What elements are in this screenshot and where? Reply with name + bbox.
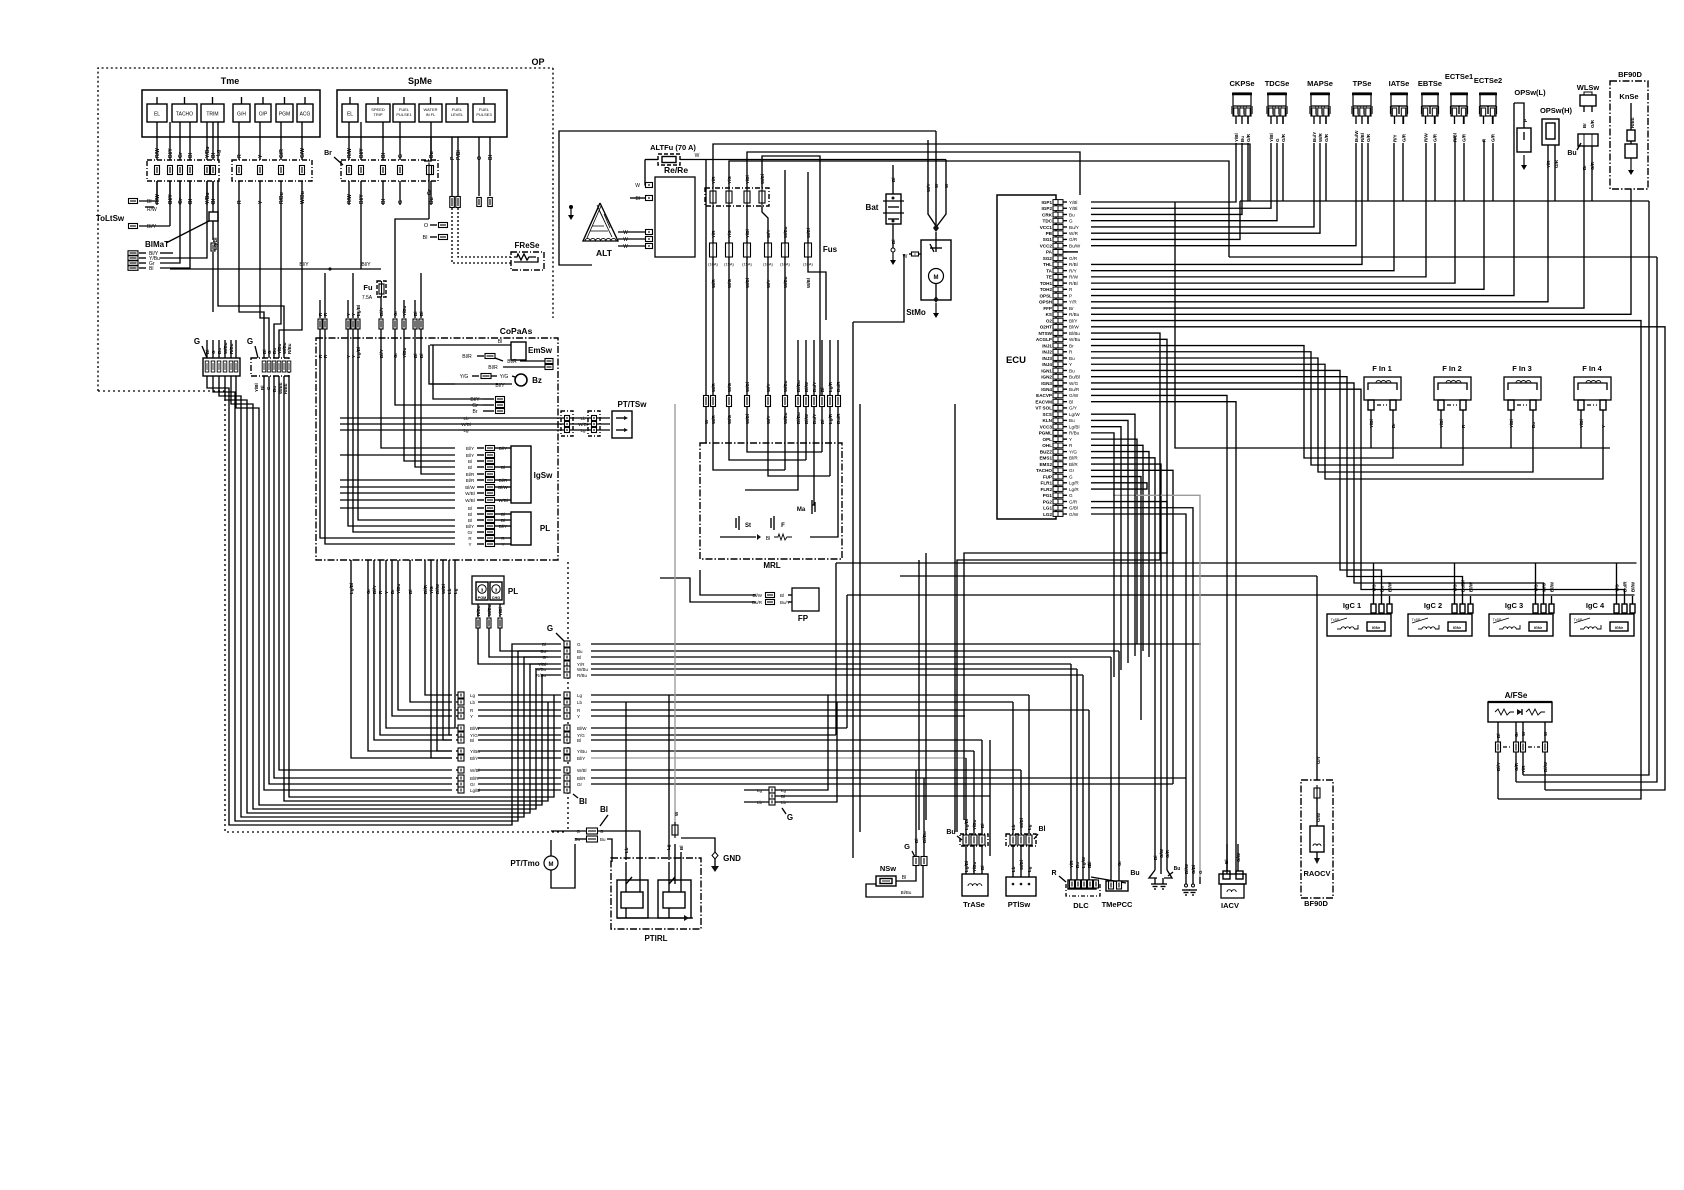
rail branch drops to PTlRL bbox=[626, 695, 669, 860]
svg-text:Bl: Bl bbox=[470, 738, 474, 743]
svg-text:Bl: Bl bbox=[468, 512, 472, 517]
svg-text:W: W bbox=[623, 230, 628, 236]
svg-text:R/W: R/W bbox=[347, 194, 353, 204]
svg-text:IgC 1: IgC 1 bbox=[1343, 601, 1361, 610]
wire W with inline fuse to PTlRL bbox=[666, 404, 684, 850]
svg-text:F In 4: F In 4 bbox=[1582, 364, 1602, 373]
svg-text:Bl/Y: Bl/Y bbox=[168, 148, 174, 158]
svg-text:G/W: G/W bbox=[1069, 393, 1079, 398]
svg-text:Bl: Bl bbox=[579, 797, 587, 806]
harness joint connectors (left column) and links bbox=[456, 692, 587, 793]
svg-text:IGN4: IGN4 bbox=[1041, 387, 1052, 392]
injector signal wires to ECU INJ pins bbox=[1091, 346, 1603, 479]
svg-text:INJ3: INJ3 bbox=[1042, 356, 1052, 361]
svg-text:G/R: G/R bbox=[1433, 133, 1438, 142]
Tme indicator O/P bbox=[255, 97, 271, 122]
ground connector G (left) bbox=[194, 337, 240, 376]
svg-text:R/Bl: R/Bl bbox=[1069, 262, 1078, 267]
svg-text:R/Bu: R/Bu bbox=[476, 605, 481, 616]
svg-text:DLC: DLC bbox=[1073, 901, 1089, 910]
svg-text:Lg/Bl: Lg/Bl bbox=[1069, 424, 1079, 429]
Tme indicator PGM bbox=[276, 97, 293, 122]
svg-text:Lg: Lg bbox=[463, 428, 469, 433]
svg-text:F In 2: F In 2 bbox=[1442, 364, 1462, 373]
svg-text:ALTFu (70 A): ALTFu (70 A) bbox=[650, 143, 696, 152]
svg-text:Bl: Bl bbox=[780, 593, 784, 598]
svg-text:PGML: PGML bbox=[1039, 431, 1052, 436]
wires Gr Bl Y/Bu to left edge connectors bbox=[160, 181, 207, 268]
svg-text:Bu: Bu bbox=[946, 829, 955, 836]
svg-text:W/R: W/R bbox=[1318, 133, 1323, 142]
svg-text:G: G bbox=[398, 200, 404, 204]
svg-text:Bl/W: Bl/W bbox=[577, 726, 587, 731]
svg-text:Bl/W: Bl/W bbox=[1184, 863, 1189, 874]
idle air control valve IACV bbox=[1219, 844, 1246, 910]
alternator ALT bbox=[583, 203, 618, 258]
svg-text:PL: PL bbox=[508, 587, 518, 596]
svg-text:OPL: OPL bbox=[1043, 437, 1053, 442]
G connector pins bbox=[205, 361, 291, 372]
svg-text:IgC 3: IgC 3 bbox=[1505, 601, 1523, 610]
fuel pump FP bbox=[660, 570, 819, 623]
ground wires PG LG bbox=[1091, 502, 1193, 877]
svg-text:W: W bbox=[635, 183, 640, 189]
tilt switch connector ToLtSw bbox=[96, 199, 170, 231]
svg-text:CRK: CRK bbox=[1042, 212, 1053, 217]
svg-text:Fus: Fus bbox=[823, 245, 838, 254]
ignition coil IgC 4 bbox=[1570, 581, 1636, 636]
svg-text:NTSW: NTSW bbox=[1038, 331, 1052, 336]
Re/Re pins W Bl and ALT links bbox=[592, 183, 653, 266]
svg-text:IGNr: IGNr bbox=[1453, 626, 1462, 630]
svg-text:G: G bbox=[904, 842, 910, 851]
connector pair Bl (G Bu) bbox=[551, 805, 640, 862]
harness wires into CoPaAs (vertical bundle with inline connectors) bbox=[318, 273, 424, 358]
svg-text:G/W: G/W bbox=[1159, 848, 1164, 858]
svg-text:Bl: Bl bbox=[211, 198, 217, 204]
pilot lamps PL (PGM CHG) bbox=[472, 576, 518, 604]
svg-text:G: G bbox=[1069, 219, 1073, 224]
ignition coil IgC 3 bbox=[1489, 581, 1555, 636]
engine ground points 2 bbox=[1182, 863, 1203, 895]
Tme indicator G/H bbox=[233, 97, 250, 122]
svg-text:TRIP: TRIP bbox=[373, 112, 382, 117]
svg-text:R/W: R/W bbox=[1069, 275, 1079, 280]
svg-text:EL: EL bbox=[154, 112, 160, 118]
svg-text:IGNr: IGNr bbox=[1615, 626, 1624, 630]
fuel injector F In 4 bbox=[1574, 364, 1611, 431]
wires SCS KLN VCC3 PGML down bbox=[1091, 414, 1135, 700]
svg-text:IGN2: IGN2 bbox=[1041, 375, 1052, 380]
PL lamp wires join harness rows bbox=[478, 628, 548, 664]
svg-text:Bl/R: Bl/R bbox=[1069, 462, 1078, 467]
buzzer Bz bbox=[455, 374, 542, 390]
svg-text:R/Bu: R/Bu bbox=[279, 192, 285, 204]
power tilt switch PTlSw bbox=[1006, 695, 1046, 909]
svg-text:Bl/Y: Bl/Y bbox=[1069, 318, 1077, 323]
svg-text:G: G bbox=[1275, 138, 1280, 142]
svg-text:Bu: Bu bbox=[1130, 870, 1139, 877]
svg-text:Y/G: Y/G bbox=[1069, 449, 1077, 454]
G connector wire labels bbox=[205, 342, 292, 394]
rectifier/regulator Re/Re bbox=[655, 165, 695, 257]
svg-text:Bl: Bl bbox=[1087, 862, 1092, 867]
svg-text:EMS2: EMS2 bbox=[1039, 462, 1052, 467]
svg-text:LG1: LG1 bbox=[1043, 506, 1052, 511]
svg-text:Lg/R: Lg/R bbox=[1069, 487, 1079, 492]
control panel assembly CoPaAs (dash-dot boundary) bbox=[316, 326, 558, 560]
svg-text:ALT: ALT bbox=[596, 248, 613, 258]
neutral switch NSw bbox=[866, 864, 923, 897]
svg-text:W/R: W/R bbox=[711, 383, 716, 392]
svg-text:W/Bu: W/Bu bbox=[300, 191, 306, 204]
svg-text:IgSw: IgSw bbox=[534, 471, 553, 480]
svg-text:Bl: Bl bbox=[413, 312, 418, 317]
svg-text:PGM: PGM bbox=[279, 112, 290, 118]
svg-text:O/P: O/P bbox=[259, 112, 268, 118]
svg-text:KnSe: KnSe bbox=[1619, 92, 1638, 101]
svg-text:W/Bu: W/Bu bbox=[487, 604, 492, 616]
CoPaAs bottom exit harness bundle bbox=[349, 560, 458, 758]
svg-text:W/Bl: W/Bl bbox=[498, 498, 508, 503]
svg-text:TACHO: TACHO bbox=[176, 112, 193, 118]
svg-text:Gr: Gr bbox=[178, 152, 184, 158]
connector stub Bl bbox=[423, 235, 448, 242]
main fuse strip (4 fuses dash-dot) bbox=[705, 188, 769, 206]
svg-text:Br: Br bbox=[1069, 343, 1074, 348]
svg-text:PULSE3: PULSE3 bbox=[476, 112, 492, 117]
left edge connectors Bl/Y Y/Bu Gr Bl bbox=[128, 251, 160, 272]
svg-text:Bu: Bu bbox=[429, 151, 435, 158]
svg-text:IACV: IACV bbox=[1221, 901, 1239, 910]
svg-text:TE: TE bbox=[1046, 275, 1052, 280]
main relay connector row Bl group bbox=[796, 340, 842, 443]
svg-text:OPSw(H): OPSw(H) bbox=[1540, 106, 1573, 115]
svg-text:Bl: Bl bbox=[188, 198, 194, 204]
fuel reserve sensor FReSe bbox=[511, 241, 544, 270]
OP harness boundary (dashed) bbox=[98, 57, 568, 832]
svg-text:IGP1: IGP1 bbox=[1042, 200, 1053, 205]
svg-text:Bl: Bl bbox=[501, 512, 505, 517]
tilt meter PCC connector TMePCC bbox=[1087, 651, 1140, 909]
svg-text:R: R bbox=[1051, 870, 1056, 877]
wires fuse strip to top rails bbox=[713, 144, 1250, 395]
svg-text:Br: Br bbox=[473, 409, 478, 415]
svg-text:Br: Br bbox=[324, 150, 332, 157]
svg-text:R/Bu: R/Bu bbox=[287, 343, 292, 354]
svg-text:Bl/Y: Bl/Y bbox=[577, 756, 585, 761]
ground GND bbox=[681, 838, 741, 872]
svg-text:SCS: SCS bbox=[1043, 412, 1052, 417]
svg-text:OPSL: OPSL bbox=[1039, 293, 1052, 298]
svg-text:R/W: R/W bbox=[1424, 133, 1429, 143]
svg-text:G/Bl: G/Bl bbox=[1069, 506, 1078, 511]
SpMe connector strip (dash-dot) bbox=[341, 160, 438, 181]
wires EACV to IACV bbox=[1091, 395, 1236, 874]
air/fuel ratio sensor A/FSe bbox=[1488, 691, 1552, 799]
svg-text:G/R: G/R bbox=[1281, 133, 1286, 142]
svg-text:Lg/R: Lg/R bbox=[1069, 481, 1079, 486]
svg-text:TOH2: TOH2 bbox=[1040, 287, 1053, 292]
svg-text:G/R: G/R bbox=[1462, 133, 1467, 142]
svg-text:INJ2: INJ2 bbox=[1042, 350, 1052, 355]
svg-text:O2: O2 bbox=[1046, 318, 1053, 323]
svg-text:VCC2: VCC2 bbox=[1040, 243, 1053, 248]
svg-text:G/Y: G/Y bbox=[1316, 756, 1321, 764]
svg-text:FReSe: FReSe bbox=[515, 241, 540, 250]
svg-text:IN FL: IN FL bbox=[426, 112, 437, 117]
svg-text:TRIM: TRIM bbox=[206, 112, 218, 118]
fuse Fu 7.5A bbox=[362, 281, 386, 301]
Tme indicator TRIM bbox=[201, 97, 224, 122]
svg-text:Y: Y bbox=[1069, 437, 1072, 442]
svg-text:PB: PB bbox=[1046, 231, 1053, 236]
svg-text:R/Y: R/Y bbox=[1069, 268, 1077, 273]
svg-text:OP: OP bbox=[531, 57, 544, 67]
svg-text:A/FSe: A/FSe bbox=[1505, 691, 1528, 700]
svg-text:Bl: Bl bbox=[419, 312, 424, 317]
intake air temp sensor IATSe bbox=[1389, 79, 1410, 142]
svg-text:Bl: Bl bbox=[498, 339, 502, 345]
svg-text:Bl: Bl bbox=[577, 655, 581, 660]
svg-text:Bl: Bl bbox=[468, 459, 472, 464]
SpMe Bu wire loop with fuse bbox=[395, 137, 433, 300]
svg-text:PL: PL bbox=[540, 524, 550, 533]
svg-text:OHL: OHL bbox=[1042, 443, 1052, 448]
svg-text:FFP: FFP bbox=[1043, 306, 1052, 311]
alternator fuse ALTFu 70A bbox=[645, 143, 946, 185]
svg-text:Y/Bl: Y/Bl bbox=[498, 607, 503, 616]
harness verticals engine center bbox=[860, 404, 990, 856]
svg-text:Bl: Bl bbox=[468, 465, 472, 470]
svg-text:Bl/R: Bl/R bbox=[499, 478, 508, 483]
svg-text:Bu/Y: Bu/Y bbox=[1069, 225, 1079, 230]
svg-text:W/Bu: W/Bu bbox=[577, 667, 588, 672]
svg-text:ECTSe1: ECTSe1 bbox=[1445, 72, 1473, 81]
svg-text:ECTSe2: ECTSe2 bbox=[1474, 76, 1502, 85]
battery W wire to starter bbox=[853, 252, 921, 858]
svg-text:R: R bbox=[237, 200, 243, 204]
long rails to right edge and A/FSe bbox=[1091, 201, 1665, 799]
svg-text:R/W: R/W bbox=[155, 148, 161, 158]
svg-text:Bl: Bl bbox=[600, 805, 608, 814]
svg-text:F In 1: F In 1 bbox=[1372, 364, 1392, 373]
harness rails from G column to engine side bbox=[591, 644, 1201, 784]
svg-text:Bl/Bu: Bl/Bu bbox=[1069, 331, 1080, 336]
svg-text:G: G bbox=[577, 642, 581, 647]
svg-text:G: G bbox=[1069, 474, 1073, 479]
svg-text:StMo: StMo bbox=[906, 308, 926, 317]
svg-text:Bl: Bl bbox=[679, 846, 684, 851]
trim meter sender link BlMaT bbox=[145, 181, 219, 312]
svg-text:R/Bl: R/Bl bbox=[1069, 281, 1078, 286]
battery Bat bbox=[866, 165, 904, 265]
gray wire Bl/Y rail bbox=[591, 757, 966, 759]
svg-text:G/R: G/R bbox=[279, 149, 285, 158]
emergency stop switch EmSw bbox=[455, 339, 553, 371]
svg-text:EL: EL bbox=[347, 112, 353, 118]
svg-text:G: G bbox=[398, 154, 404, 158]
svg-text:G: G bbox=[247, 337, 253, 346]
svg-text:TDCSe: TDCSe bbox=[1265, 79, 1290, 88]
svg-text:Bu/W: Bu/W bbox=[1354, 130, 1359, 142]
svg-text:Bl/W: Bl/W bbox=[465, 485, 475, 490]
svg-text:TPSe: TPSe bbox=[1353, 79, 1372, 88]
wires Lb W/Bl Lg to PT/TSw bbox=[455, 416, 610, 433]
svg-text:EACVM: EACVM bbox=[1035, 399, 1052, 404]
svg-text:G: G bbox=[542, 655, 546, 660]
wires from Fus row down to MRL connectors bbox=[713, 257, 826, 395]
svg-text:Bl: Bl bbox=[902, 875, 906, 881]
svg-text:Lb: Lb bbox=[470, 700, 476, 705]
engine control unit ECU bbox=[997, 195, 1056, 519]
Tme indicator TACHO bbox=[172, 97, 197, 122]
svg-text:FLR2: FLR2 bbox=[1041, 487, 1053, 492]
svg-text:Lg: Lg bbox=[470, 693, 476, 698]
svg-text:R/Bu: R/Bu bbox=[1069, 312, 1080, 317]
svg-text:W/Bu: W/Bu bbox=[1069, 337, 1081, 342]
svg-text:G/R: G/R bbox=[1402, 133, 1407, 142]
SpMe pins P P/Bl O Bl with connectors bbox=[450, 137, 494, 208]
svg-text:PA: PA bbox=[1046, 250, 1053, 255]
svg-text:MRL: MRL bbox=[763, 561, 780, 570]
engine coolant temp sensor ECTSe2 bbox=[1474, 76, 1502, 142]
svg-text:FLR1: FLR1 bbox=[1041, 481, 1053, 486]
svg-text:ECU: ECU bbox=[1006, 355, 1026, 366]
svg-text:OPSH: OPSH bbox=[1039, 300, 1053, 305]
svg-text:P: P bbox=[1069, 293, 1072, 298]
svg-text:TrASe: TrASe bbox=[963, 900, 985, 909]
svg-text:Bu: Bu bbox=[1567, 150, 1576, 157]
svg-text:Bl/Y: Bl/Y bbox=[359, 148, 365, 158]
svg-text:ACG: ACG bbox=[300, 112, 311, 118]
svg-text:THL: THL bbox=[1043, 262, 1052, 267]
svg-text:LEVEL: LEVEL bbox=[451, 112, 464, 117]
svg-text:W/Bu: W/Bu bbox=[535, 667, 546, 672]
svg-text:Bl/R: Bl/R bbox=[1069, 456, 1078, 461]
engine coolant temp sensor ECTSe1 bbox=[1445, 72, 1473, 142]
svg-text:Y/R: Y/R bbox=[1069, 300, 1077, 305]
svg-text:Bl: Bl bbox=[1039, 826, 1046, 833]
svg-text:Gr: Gr bbox=[1514, 731, 1519, 737]
power tilt/trim switch PT/TSw bbox=[612, 400, 647, 438]
wires between fuse rows bbox=[713, 170, 808, 243]
second fuse row Fus bbox=[708, 226, 838, 288]
svg-text:G/R: G/R bbox=[1246, 133, 1251, 142]
SpMe indicator FUEL PULSE1 bbox=[393, 97, 415, 122]
svg-text:CoPaAs: CoPaAs bbox=[500, 326, 533, 336]
Tme indicator ACG bbox=[297, 97, 313, 122]
svg-text:Bu: Bu bbox=[1069, 356, 1075, 361]
svg-text:IGNr: IGNr bbox=[1534, 626, 1543, 630]
fuel injector F In 1 bbox=[1364, 364, 1401, 431]
ignition Y/G rail bbox=[836, 563, 1637, 596]
svg-text:Lg/Bl: Lg/Bl bbox=[356, 305, 361, 316]
wires EMS FUP FLR bbox=[1091, 458, 1161, 862]
crank position sensor CKPSe bbox=[1229, 79, 1254, 142]
wire TACHO Gr long run bbox=[1091, 470, 1173, 784]
svg-text:Y/Bl: Y/Bl bbox=[1069, 200, 1077, 205]
svg-text:W/Y: W/Y bbox=[766, 384, 771, 393]
svg-text:INJ1: INJ1 bbox=[1042, 343, 1052, 348]
svg-text:Y: Y bbox=[501, 542, 504, 547]
svg-text:W: W bbox=[623, 244, 628, 250]
svg-text:Y/Bl: Y/Bl bbox=[1269, 133, 1274, 142]
svg-text:W/Bl: W/Bl bbox=[745, 382, 750, 392]
svg-text:MAPSe: MAPSe bbox=[1307, 79, 1333, 88]
svg-text:O2HT: O2HT bbox=[1040, 325, 1052, 330]
svg-text:W/G: W/G bbox=[727, 383, 732, 392]
svg-text:Bl/Y: Bl/Y bbox=[499, 446, 507, 451]
svg-text:R/W: R/W bbox=[155, 194, 161, 204]
main relay connector row W group bbox=[704, 160, 789, 444]
SpMe indicator FUEL LEVEL bbox=[446, 97, 468, 122]
svg-text:Bl/R: Bl/R bbox=[577, 776, 586, 781]
svg-text:IGN3: IGN3 bbox=[1041, 381, 1052, 386]
svg-text:PTlRL: PTlRL bbox=[644, 934, 667, 943]
svg-text:Lg: Lg bbox=[666, 844, 671, 850]
svg-text:Bl/W: Bl/W bbox=[1550, 581, 1555, 592]
main relay MRL (dash-dot box) bbox=[700, 443, 842, 570]
svg-text:G/Bl: G/Bl bbox=[1191, 865, 1196, 874]
svg-text:W/Bl: W/Bl bbox=[465, 491, 475, 496]
svg-text:Bl/R: Bl/R bbox=[462, 354, 472, 360]
ECU pin rows with labels bbox=[1035, 200, 1080, 517]
svg-text:PT/Tmo: PT/Tmo bbox=[510, 859, 539, 868]
svg-text:Y/G: Y/G bbox=[500, 374, 509, 380]
harness joint connector column G (mid) bbox=[547, 624, 564, 641]
svg-text:NSw: NSw bbox=[880, 864, 896, 873]
meter block SpMe bbox=[337, 76, 507, 137]
svg-text:Gr: Gr bbox=[1069, 468, 1075, 473]
svg-text:SG2: SG2 bbox=[1043, 256, 1053, 261]
svg-text:Bl: Bl bbox=[636, 196, 640, 202]
svg-text:Bu: Bu bbox=[540, 649, 546, 654]
connector Br callout bbox=[324, 150, 343, 165]
svg-text:IGN1: IGN1 bbox=[1041, 368, 1052, 373]
svg-text:P: P bbox=[1523, 119, 1528, 122]
connector stubs Bl/Y Gr Br bbox=[470, 397, 504, 416]
engine ground points bbox=[1149, 848, 1180, 889]
svg-text:M: M bbox=[934, 275, 939, 281]
svg-text:Bu: Bu bbox=[1069, 418, 1075, 423]
svg-text:Bl/R: Bl/R bbox=[507, 359, 517, 365]
connector column label Bl bbox=[573, 794, 587, 806]
svg-text:BF90D: BF90D bbox=[1618, 70, 1642, 79]
wires OPL OHL BUZZ to harness rails bbox=[1091, 439, 1149, 657]
svg-text:BF90D: BF90D bbox=[1304, 899, 1328, 908]
svg-text:IGP2: IGP2 bbox=[1042, 206, 1053, 211]
svg-text:Bu: Bu bbox=[1240, 136, 1245, 142]
svg-text:Bl: Bl bbox=[149, 266, 153, 272]
svg-text:PG1: PG1 bbox=[1043, 493, 1053, 498]
svg-text:G/R: G/R bbox=[1069, 499, 1078, 504]
svg-text:Lg/W: Lg/W bbox=[1069, 412, 1080, 417]
svg-text:Br: Br bbox=[1582, 123, 1587, 128]
svg-text:Bl/Y: Bl/Y bbox=[359, 194, 365, 204]
svg-text:Y/Bl: Y/Bl bbox=[1234, 133, 1239, 142]
svg-text:Bl: Bl bbox=[501, 518, 505, 523]
wires NTSW ACGLP down-left bbox=[957, 333, 1167, 832]
svg-text:R/W: R/W bbox=[347, 148, 353, 158]
svg-text:G/R: G/R bbox=[1590, 119, 1595, 128]
svg-text:W/Bl: W/Bl bbox=[465, 498, 475, 503]
svg-text:G/R: G/R bbox=[1366, 133, 1371, 142]
svg-text:Bl: Bl bbox=[488, 154, 494, 160]
svg-text:Y/Bl: Y/Bl bbox=[1069, 206, 1077, 211]
svg-text:W/G: W/G bbox=[1069, 381, 1079, 386]
svg-text:Bz: Bz bbox=[532, 376, 542, 385]
